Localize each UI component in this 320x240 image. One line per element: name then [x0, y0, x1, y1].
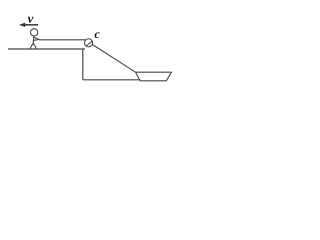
label c	[95, 32, 100, 38]
boat	[136, 72, 172, 81]
ground line	[8, 48, 85, 50]
rope from person to pulley	[39, 39, 86, 41]
water line	[83, 79, 140, 81]
rope from pulley to boat	[92, 45, 135, 73]
person	[30, 29, 39, 49]
wall	[82, 49, 84, 80]
label v	[28, 17, 34, 23]
pulley C	[85, 39, 93, 47]
pulley axle mark	[86, 41, 92, 46]
velocity arrow	[19, 23, 38, 27]
